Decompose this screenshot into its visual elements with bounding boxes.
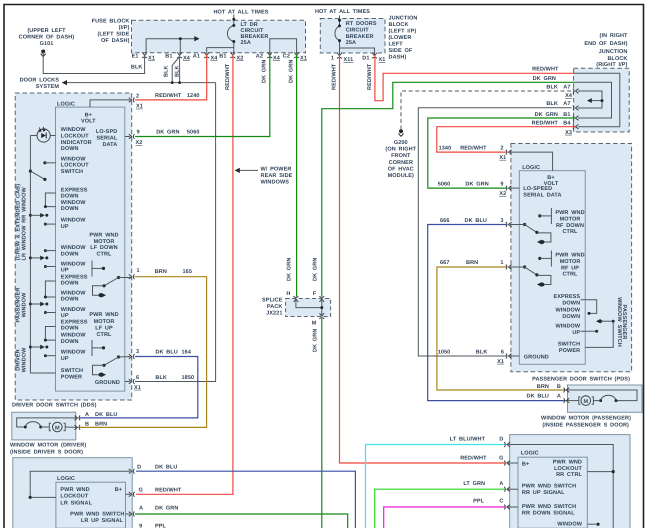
svg-text:LO-SPD: LO-SPD: [96, 129, 117, 135]
svg-text:667: 667: [440, 260, 449, 266]
junction dots door locks bus: [171, 81, 174, 84]
svg-text:PWR WND: PWR WND: [60, 487, 89, 493]
svg-text:PACK: PACK: [267, 304, 283, 310]
svg-text:DOWN: DOWN: [61, 194, 79, 200]
svg-text:RED/WHT: RED/WHT: [367, 63, 373, 90]
svg-text:A: A: [557, 393, 561, 399]
svg-text:B1: B1: [563, 112, 570, 118]
wire PPL: [384, 507, 505, 528]
RR pin G: [507, 462, 518, 464]
svg-text:G: G: [499, 455, 503, 461]
svg-text:H: H: [286, 291, 290, 297]
svg-text:X11: X11: [344, 57, 354, 63]
wire DDS B+ to pin 2: [90, 100, 130, 107]
pin RED/WHT B4: [573, 124, 579, 129]
pin BLK A7: [573, 106, 579, 111]
passenger door switch PDS box: [511, 144, 632, 372]
svg-text:PWR WND SWITCH: PWR WND SWITCH: [522, 504, 576, 510]
svg-text:(UPPER LEFT: (UPPER LEFT: [27, 28, 66, 34]
svg-text:FUSE BLOCK: FUSE BLOCK: [92, 19, 130, 25]
svg-text:1340: 1340: [439, 146, 452, 152]
svg-text:LOGIC: LOGIC: [521, 451, 539, 457]
svg-text:2: 2: [136, 94, 139, 100]
PDS ground pin 6 X1: [510, 355, 519, 357]
PDS pin 2 X1: [506, 150, 512, 155]
window motor driver box: [12, 412, 76, 440]
svg-text:M: M: [312, 321, 317, 327]
svg-text:BLK: BLK: [131, 65, 143, 71]
svg-text:1: 1: [137, 268, 140, 274]
svg-text:MODULE): MODULE): [388, 173, 414, 179]
svg-text:DOOR LOCKS: DOOR LOCKS: [20, 78, 60, 84]
svg-text:SYSTEM: SYSTEM: [36, 84, 60, 90]
svg-text:X4: X4: [211, 55, 219, 61]
pin E1/X1: [142, 52, 147, 58]
svg-text:POWER: POWER: [559, 348, 580, 354]
wire RED/WHT B1X2 main riser: [136, 54, 233, 494]
pin B1/X4: [177, 52, 182, 58]
svg-text:DK BLU: DK BLU: [527, 393, 549, 399]
svg-text:X1: X1: [136, 104, 143, 110]
svg-text:GROUND: GROUND: [95, 380, 120, 386]
LR logic box: [56, 482, 126, 528]
svg-text:EXPRESS: EXPRESS: [61, 274, 88, 280]
DDS pin 6 X1 ground: [125, 381, 130, 383]
svg-text:DK GRN: DK GRN: [312, 258, 318, 281]
wire LED row: [30, 135, 37, 137]
wire D1 riser: [340, 48, 375, 55]
svg-text:GROUND: GROUND: [524, 354, 549, 360]
svg-text:LOCKOUT: LOCKOUT: [61, 134, 89, 140]
svg-text:PWR WND: PWR WND: [555, 210, 584, 216]
svg-text:RR WINDOW: RR WINDOW: [22, 186, 28, 222]
svg-text:LR WINDOW: LR WINDOW: [22, 225, 28, 261]
PDS logic box: [519, 171, 585, 365]
DDS switch group LR: [44, 249, 47, 252]
svg-text:DK GRN: DK GRN: [287, 258, 293, 281]
pin A1/X4: [204, 52, 209, 58]
svg-text:WINDOW: WINDOW: [61, 156, 86, 162]
svg-text:CTRL: CTRL: [96, 251, 112, 257]
DDS switch LF motor 2: [91, 340, 93, 356]
svg-text:OF DASH): OF DASH): [101, 38, 130, 44]
splice pack JX221 box: [286, 299, 331, 317]
DDS pin 9 X2: [125, 136, 130, 138]
svg-text:UP: UP: [61, 356, 69, 362]
svg-text:DOWN: DOWN: [61, 146, 79, 152]
svg-text:3: 3: [500, 218, 503, 224]
svg-text:WINDOW MOTOR (DRIVER): WINDOW MOTOR (DRIVER): [10, 443, 86, 449]
svg-text:3: 3: [136, 349, 139, 355]
svg-text:25A: 25A: [346, 40, 356, 46]
PDS linkage: [581, 300, 597, 314]
svg-text:MOTOR: MOTOR: [94, 319, 115, 325]
svg-text:F: F: [313, 291, 317, 297]
svg-text:B4: B4: [563, 121, 571, 127]
svg-text:DK BLU: DK BLU: [155, 465, 177, 471]
svg-text:DOWN: DOWN: [61, 339, 79, 345]
wire LT GRN: [375, 489, 505, 528]
svg-text:LOCKOUT: LOCKOUT: [554, 466, 582, 472]
DDS switch LF motor 1: [91, 261, 93, 277]
svg-text:WINDOW: WINDOW: [22, 292, 28, 317]
svg-text:DOWN: DOWN: [61, 297, 79, 303]
svg-text:(I/P): (I/P): [119, 25, 130, 31]
svg-text:C2: C2: [283, 54, 290, 60]
svg-text:RT DOORS: RT DOORS: [346, 21, 377, 27]
junction block (right I/P) box: [574, 68, 630, 132]
svg-text:B: B: [85, 422, 89, 428]
svg-text:LOGIC: LOGIC: [522, 165, 540, 171]
DDS lockout switch: [43, 161, 46, 164]
splice internal wires: [296, 299, 322, 308]
svg-text:SWITCH: SWITCH: [61, 368, 83, 374]
svg-text:B+: B+: [522, 461, 529, 467]
svg-text:DATA: DATA: [102, 142, 117, 148]
svg-text:A: A: [85, 412, 89, 418]
svg-text:BLOCK: BLOCK: [389, 22, 409, 28]
svg-text:SWITCH: SWITCH: [558, 342, 580, 348]
svg-text:BLK: BLK: [155, 375, 167, 381]
svg-text:BLK: BLK: [546, 101, 558, 107]
svg-text:WINDOW: WINDOW: [61, 245, 86, 251]
svg-text:WINDOW MOTOR (PASSENGER): WINDOW MOTOR (PASSENGER): [541, 416, 631, 422]
svg-text:CTRL: CTRL: [96, 332, 112, 338]
svg-text:EXPRESS: EXPRESS: [554, 294, 581, 300]
jb ground arrow: [589, 100, 602, 102]
svg-text:DASH): DASH): [389, 55, 407, 61]
svg-text:5060: 5060: [438, 182, 451, 188]
svg-text:WINDOW: WINDOW: [61, 200, 86, 206]
jb RIGHT loop blk: [578, 91, 602, 108]
wire A1 riser: [207, 48, 234, 55]
svg-text:DOWN: DOWN: [562, 314, 580, 320]
svg-text:LT GRN: LT GRN: [463, 481, 485, 487]
wire RED/WHT D1 to jb right: [375, 55, 574, 101]
svg-text:C: C: [499, 499, 503, 505]
splice M pin: [319, 313, 324, 319]
svg-text:RED/WHT: RED/WHT: [225, 63, 231, 90]
wire DK GRN 5060 B1 to PDS: [428, 118, 576, 188]
svg-text:(ON RIGHT: (ON RIGHT: [385, 147, 416, 153]
LR pin A: [126, 513, 131, 515]
svg-text:BRN: BRN: [155, 269, 167, 275]
G200 ground: [399, 129, 403, 133]
svg-text:PASSENGER DOOR SWITCH (PDS): PASSENGER DOOR SWITCH (PDS): [532, 377, 630, 383]
svg-text:UP: UP: [61, 313, 69, 319]
svg-text:X1: X1: [379, 57, 386, 63]
DDS pin 1: [129, 274, 135, 279]
splice F pin: [319, 296, 324, 302]
svg-text:X2: X2: [136, 140, 143, 146]
svg-text:BRN: BRN: [466, 260, 478, 266]
wire DK GRN splice F to jb right: [322, 82, 574, 296]
DDS LED indicator: [37, 129, 50, 142]
svg-text:WINDOW: WINDOW: [61, 350, 86, 356]
svg-text:SERIAL: SERIAL: [97, 136, 118, 142]
svg-text:WINDOW: WINDOW: [555, 324, 580, 330]
svg-text:LEFT: LEFT: [389, 42, 404, 48]
fuse block (I/P) box: [132, 20, 306, 53]
svg-text:A2: A2: [256, 54, 263, 60]
svg-text:B: B: [557, 384, 561, 390]
svg-text:(LEFT I/P): (LEFT I/P): [389, 29, 417, 35]
svg-text:JUNCTION: JUNCTION: [599, 49, 628, 55]
svg-text:SIDE OF: SIDE OF: [389, 48, 413, 54]
svg-text:WINDOW: WINDOW: [61, 218, 86, 224]
svg-text:666: 666: [440, 218, 449, 224]
svg-text:9: 9: [500, 182, 503, 188]
wire RED/WHT 1340 B4 to PDS: [437, 127, 576, 152]
svg-text:X4: X4: [273, 55, 281, 61]
RR logic box: [518, 457, 587, 528]
pin B1/X2: [230, 52, 235, 58]
svg-text:X4: X4: [183, 55, 191, 61]
svg-text:WINDOW SWITCH: WINDOW SWITCH: [616, 297, 622, 347]
svg-text:DRIVER DOOR SWITCH (DDS): DRIVER DOOR SWITCH (DDS): [12, 403, 97, 409]
svg-text:X3: X3: [565, 130, 572, 136]
svg-text:1050: 1050: [438, 350, 451, 356]
svg-text:25A: 25A: [241, 40, 251, 46]
svg-text:WINDOWS: WINDOWS: [261, 180, 290, 186]
svg-text:X1: X1: [300, 55, 307, 61]
svg-text:WINDOW: WINDOW: [557, 522, 582, 528]
svg-text:165: 165: [183, 269, 192, 275]
pin BLK A7 X4: [573, 89, 579, 94]
svg-text:MOTOR: MOTOR: [560, 259, 581, 265]
DDS logic box: [56, 107, 125, 391]
svg-text:DK BLU: DK BLU: [95, 412, 117, 418]
svg-text:(IN RIGHT: (IN RIGHT: [600, 33, 629, 39]
driver motor pin B: [75, 425, 81, 430]
svg-text:LF UP: LF UP: [95, 326, 113, 332]
svg-text:X4: X4: [565, 93, 573, 99]
svg-text:PWR WND: PWR WND: [555, 253, 584, 259]
svg-text:RR UP SIGNAL: RR UP SIGNAL: [522, 490, 565, 496]
svg-text:DOWN: DOWN: [61, 326, 79, 332]
DDS pin 2 X1: [129, 97, 135, 102]
svg-text:MOTOR: MOTOR: [560, 216, 581, 222]
svg-text:RF DOWN: RF DOWN: [556, 223, 584, 229]
PDS switch RF up: [550, 251, 552, 267]
svg-text:WINDOW: WINDOW: [61, 127, 86, 133]
svg-text:WINDOW: WINDOW: [555, 307, 580, 313]
svg-text:G101: G101: [40, 41, 54, 47]
LR pin D: [30, 471, 130, 497]
svg-text:CIRCUIT: CIRCUIT: [346, 28, 370, 34]
LR lockout row: [29, 496, 32, 499]
pin C2/X1: [294, 52, 299, 58]
wire DK BLU 666 PDS to motor: [428, 225, 565, 401]
w/ power rear side windows arrow: [237, 169, 258, 171]
svg-text:1: 1: [331, 55, 334, 61]
svg-text:SERIAL DATA: SERIAL DATA: [523, 192, 561, 198]
svg-text:X2: X2: [237, 55, 244, 61]
svg-text:LOCKOUT: LOCKOUT: [60, 494, 88, 500]
svg-text:RF UP: RF UP: [561, 265, 579, 271]
svg-text:D: D: [499, 437, 503, 443]
DDS switch group passenger: [45, 281, 55, 297]
LT DR circuit breaker CB1: [233, 15, 235, 26]
wire RED/WHT X11 to RR door: [340, 55, 506, 463]
svg-text:(LOWER: (LOWER: [389, 35, 412, 41]
junction dot fuse feed: [179, 37, 182, 40]
svg-text:1240: 1240: [187, 93, 200, 99]
svg-text:9: 9: [139, 524, 142, 528]
svg-text:X1: X1: [148, 55, 155, 61]
svg-text:DK GRN: DK GRN: [465, 182, 488, 188]
svg-text:DRIVER: DRIVER: [16, 349, 22, 370]
wire BLK 1050: [418, 108, 571, 356]
svg-text:PPL: PPL: [473, 499, 485, 505]
svg-text:PWR WND SWITCH: PWR WND SWITCH: [70, 511, 124, 517]
svg-text:RR CTRL: RR CTRL: [556, 472, 582, 478]
window motor driver symbol: [17, 418, 77, 427]
svg-text:X1: X1: [134, 385, 141, 391]
svg-text:DK GRN: DK GRN: [535, 112, 558, 118]
wire DK GRN 5060 A2 to DDS: [135, 54, 270, 136]
svg-text:LOGIC: LOGIC: [57, 101, 75, 107]
svg-text:BLK: BLK: [164, 65, 170, 77]
svg-text:UP: UP: [61, 224, 69, 230]
svg-text:DK GRN: DK GRN: [533, 76, 556, 82]
wire DK GRN C2 to splice H: [296, 54, 298, 296]
driver door switch DDS box: [15, 93, 132, 400]
svg-text:DOWN: DOWN: [562, 300, 580, 306]
svg-text:(LEFT SIDE: (LEFT SIDE: [97, 32, 129, 38]
svg-text:PWR WND SWITCH: PWR WND SWITCH: [522, 484, 576, 490]
window motor passenger symbol: [565, 390, 637, 401]
wire BLK B1 branch right: [179, 57, 181, 83]
rear door LR box: [13, 458, 132, 528]
RR pin C: [507, 506, 518, 508]
svg-text:RED/WHT: RED/WHT: [460, 455, 487, 461]
wire DK BLU 164 DDS to motor: [79, 357, 198, 418]
svg-text:D: D: [137, 465, 141, 471]
svg-text:A: A: [499, 481, 503, 487]
svg-text:POWER: POWER: [61, 374, 82, 380]
svg-text:RED/WHT: RED/WHT: [155, 487, 182, 493]
wire BLK B1 branch left: [172, 57, 179, 83]
DDS pin 3: [129, 354, 135, 359]
PDS pin 1: [506, 265, 512, 270]
svg-text:RR DOWN SIGNAL: RR DOWN SIGNAL: [522, 510, 575, 516]
wire DK GRN LR pin A: [135, 514, 348, 528]
wire LT BLU/WHT: [366, 445, 506, 528]
svg-text:X1: X1: [499, 155, 506, 161]
svg-text:JUNCTION: JUNCTION: [389, 16, 418, 22]
svg-text:WINDOW: WINDOW: [61, 307, 86, 313]
jb RIGHT loop green: [574, 82, 612, 118]
svg-text:PASSENGER: PASSENGER: [16, 287, 22, 322]
svg-text:RED/WHT: RED/WHT: [532, 121, 559, 127]
svg-text:HOT AT ALL TIMES: HOT AT ALL TIMES: [315, 9, 370, 15]
svg-text:DK GRN: DK GRN: [262, 60, 268, 83]
svg-text:BLK: BLK: [174, 65, 180, 77]
svg-text:(INSIDE DRIVER S DOOR): (INSIDE DRIVER S DOOR): [10, 450, 83, 456]
wire A2-C2 riser: [270, 39, 297, 55]
svg-text:EXPRESS: EXPRESS: [61, 320, 88, 326]
svg-text:FRONT: FRONT: [391, 153, 411, 159]
svg-text:A7: A7: [563, 101, 570, 107]
svg-text:(CREW & EXTENDED CAB): (CREW & EXTENDED CAB): [16, 184, 22, 260]
svg-text:CORNER OF DASH): CORNER OF DASH): [19, 35, 75, 41]
svg-text:WINDOW: WINDOW: [61, 261, 86, 267]
wire RED/WHT 1240 A1 to DDS: [135, 54, 207, 100]
DDS switch bus: [30, 136, 55, 374]
svg-text:DK GRN: DK GRN: [156, 129, 179, 135]
wire PDS B+ to pin 2: [510, 152, 553, 171]
svg-text:EXPRESS: EXPRESS: [61, 187, 88, 193]
RR pin A: [507, 488, 518, 490]
wire BLK E1 to G101: [43, 52, 144, 74]
svg-text:DK GRN: DK GRN: [288, 60, 294, 83]
svg-text:D1: D1: [362, 55, 369, 61]
wire DK GRN splice M down: [321, 319, 323, 528]
svg-text:DOWN: DOWN: [61, 251, 79, 257]
svg-text:INDICATOR: INDICATOR: [61, 140, 92, 146]
svg-text:MOTOR: MOTOR: [94, 239, 115, 245]
pin 1/X11: [337, 53, 342, 59]
svg-text:OF HVAC: OF HVAC: [388, 166, 414, 172]
wire BRN 165 DDS to motor: [79, 277, 207, 428]
splice H pin: [293, 296, 298, 302]
svg-text:END OF DASH): END OF DASH): [584, 41, 627, 47]
wire BLK A7 dashed to G200: [401, 91, 572, 130]
svg-text:6: 6: [136, 375, 139, 381]
svg-text:CTRL: CTRL: [562, 272, 578, 278]
svg-text:RED/WHT: RED/WHT: [460, 146, 487, 152]
svg-text:LT BLU/WHT: LT BLU/WHT: [450, 437, 486, 443]
RR pin D: [509, 445, 614, 528]
pin D1/X1: [372, 53, 377, 59]
DDS switch group RR: [45, 193, 55, 207]
svg-text:WINDOW: WINDOW: [22, 347, 28, 372]
svg-text:1: 1: [500, 260, 503, 266]
svg-text:BRN: BRN: [95, 422, 107, 428]
svg-text:SWITCH: SWITCH: [61, 169, 83, 175]
svg-text:DOWN: DOWN: [61, 206, 79, 212]
svg-text:LR UP SIGNAL: LR UP SIGNAL: [81, 518, 124, 524]
svg-text:9: 9: [137, 129, 140, 135]
svg-text:A1: A1: [193, 54, 200, 60]
svg-text:B+: B+: [115, 487, 122, 493]
svg-text:(INSIDE PASSENGER S DOOR): (INSIDE PASSENGER S DOOR): [542, 422, 629, 428]
svg-text:(RIGHT I/P): (RIGHT I/P): [596, 62, 627, 68]
svg-text:BLOCK: BLOCK: [607, 56, 627, 62]
svg-text:DOWN: DOWN: [61, 281, 79, 287]
svg-text:B1: B1: [219, 54, 226, 60]
svg-text:HOT AT ALL TIMES: HOT AT ALL TIMES: [213, 10, 268, 16]
svg-text:PWR WND: PWR WND: [89, 312, 118, 318]
svg-text:REAR SIDE: REAR SIDE: [261, 173, 293, 179]
svg-text:G: G: [139, 487, 143, 493]
svg-text:2: 2: [500, 146, 503, 152]
svg-text:DK BLU: DK BLU: [155, 349, 177, 355]
PDS switch RF down: [550, 208, 552, 224]
RT doors circuit breaker CB2: [339, 16, 341, 26]
jb RIGHT loop red: [574, 73, 620, 126]
svg-text:X2: X2: [499, 191, 506, 197]
pin DK GRN B1: [573, 116, 579, 121]
PDS pin 9 X2: [510, 187, 519, 189]
wire DK BLU LR pin D: [136, 471, 355, 528]
svg-text:B1: B1: [165, 54, 172, 60]
svg-text:SPLICE: SPLICE: [262, 298, 283, 304]
svg-text:RED/WHT: RED/WHT: [331, 63, 337, 90]
rear door RR box: [510, 435, 630, 528]
svg-text:JX221: JX221: [266, 311, 282, 317]
